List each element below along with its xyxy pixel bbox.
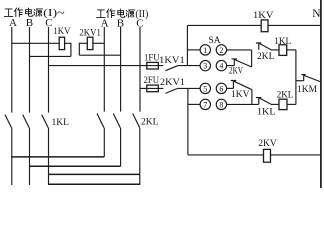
coil 2KV1 [87,37,93,49]
wire: bus C2 lower [139,128,141,185]
svg-text:2FU: 2FU [144,76,160,86]
contact 1KL riser and tick [256,97,261,104]
contact 1KL blade [259,98,272,105]
wire: 1KV coil return to B1 [30,55,71,57]
wire: 2KV1 coil return to B2 [79,54,120,56]
wire: coil outputs junction vertical [295,50,297,105]
contact 1KV riser and tick [231,81,237,89]
svg-text:2KV: 2KV [258,139,277,149]
wire: SA2 out [227,49,252,51]
node SA terminal 6 [216,83,226,93]
label: source II title 工作电源(II) [97,9,149,20]
coil 2KL [279,99,287,109]
wire: C phase lower bus [48,183,140,185]
svg-text:N: N [312,8,321,20]
svg-text:4: 4 [219,62,223,71]
作 [14,8,22,17]
wire: top rail to N [187,24,321,26]
电 [118,9,125,17]
svg-text:1KL: 1KL [274,37,291,47]
wire: 2KV1 coil left elbow [79,43,87,55]
wire: bus C2 upper [139,27,141,112]
node SA terminal 2 [216,45,226,55]
wire: bus B1 upper [29,27,31,113]
contact 1KL pole A1 blade [5,115,12,128]
wire: row 3 merge vertical [251,90,253,105]
svg-text:A: A [9,17,17,29]
svg-text:6: 6 [219,84,223,93]
wire: bus C1 upper [48,27,50,113]
node SA terminal 1 [200,45,210,55]
label: source I title 工作电源(I)~ [4,8,65,19]
contact 1KL pole C1 blade [42,115,49,128]
wire: bus B2 upper [120,27,122,112]
contact 1KV blade [234,81,252,90]
svg-text:2KV1: 2KV1 [79,28,101,38]
svg-text:1: 1 [203,46,207,55]
wire: stub rail to SA1 [187,49,200,51]
node SA terminal 7 [200,99,210,109]
node SA terminal 4 [216,60,226,70]
coil 1KL [279,45,287,56]
wire: B phase tie line [29,165,121,167]
源 [34,9,43,17]
wire: bus A2 upper [103,27,105,112]
wire: 1KV coil right elbow [65,43,71,56]
svg-text:8: 8 [219,100,223,109]
源 [126,10,135,18]
wire: 1KV1 out to SA row 2 [178,65,201,67]
contact 2KL pole C2 blade [133,114,140,128]
wire: 2KV1 coil to A2 [93,42,104,44]
svg-text:5: 5 [203,84,207,93]
svg-text:1KL: 1KL [257,107,276,117]
wire: SA4 out [227,65,235,67]
wire: C1 to fuse 1FU [49,65,164,67]
svg-text:2KV1: 2KV1 [160,78,185,88]
作 [107,9,115,18]
工 [97,10,106,18]
contact 2KL blade [259,43,272,50]
contact 2KL pole A2 blade [97,114,104,128]
wire: junction to 1KM contact [296,80,304,82]
svg-text:2KL: 2KL [257,52,275,62]
wire: row 2 merge vertical [251,50,253,67]
wire: C phase tie line [48,173,140,175]
wire: bottom rail [188,154,321,156]
wire: control rail upper left [186,25,188,65]
wire: 1KL contact to 2KL coil [272,103,279,105]
svg-text:1KV1: 1KV1 [159,56,185,66]
coil 1KV (monitor relay, top right) [261,20,268,32]
svg-text:1KL: 1KL [52,118,70,128]
wire: stub rail to SA7 [188,103,200,105]
node SA terminal 3 [200,60,210,70]
电 [26,8,33,16]
wire: 1KL coil out [287,49,296,51]
wire: bus A1 lower [11,128,13,185]
wire: 2KL contact to 1KL coil [272,49,279,51]
svg-text:1KV: 1KV [53,27,70,37]
node SA terminal 8 [216,99,226,109]
contact 2KL riser and tick [256,43,261,50]
svg-text:1KV: 1KV [253,11,274,21]
coil 2KV (bottom) [264,149,271,162]
wire: C2 to fuse 2FU [140,87,164,89]
wire: bus C1 lower [48,128,50,185]
wire: N rail right border [320,0,322,188]
wire: 2KL coil out [287,103,296,105]
svg-text:7: 7 [203,100,207,109]
contact 1KL pole B1 blade [23,115,30,128]
svg-text:3: 3 [203,62,207,71]
wire: control rail lower left [187,88,189,154]
wire: bus A1 upper [11,27,13,113]
coil 1KV (left voltage relay) [59,37,64,49]
fuse 2FU [147,85,159,92]
svg-text:1KM: 1KM [297,85,318,95]
wire: A1 to 1KV coil [12,42,59,44]
工 [4,9,13,17]
svg-text:2KL: 2KL [141,117,159,127]
contact 2KV1 blade [165,88,177,93]
svg-text:1KV: 1KV [231,90,250,100]
wire: bus B1 lower [29,128,31,185]
contact 2KV riser and tick [232,59,237,66]
svg-text:2KL: 2KL [277,90,294,100]
wire: bus B2 lower [120,128,122,166]
contact 2KL pole B2 blade [113,114,120,128]
svg-text:1FU: 1FU [144,53,160,63]
node SA terminal 5 [200,83,210,93]
svg-text:2KV: 2KV [229,66,243,76]
contact 1KM riser and tick [301,74,305,81]
wire: 2KV1 out to SA row 3 [178,87,201,89]
svg-text:2: 2 [219,46,223,55]
contact 1KV1 blade [165,66,177,71]
wire: SA8 out [227,103,259,105]
wire: bus A2 lower [103,128,105,157]
wire: SA6 out [227,87,234,89]
contact 1KM blade [304,75,320,81]
wire: A phase tie line [11,156,104,158]
fuse 1FU [147,62,159,69]
contact 2KV blade [235,60,252,67]
